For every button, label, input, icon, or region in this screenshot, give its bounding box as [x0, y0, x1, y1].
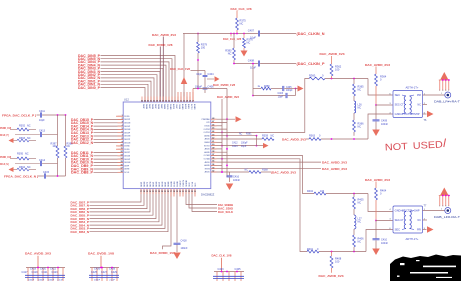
svg-text:C422: C422 [50, 267, 57, 270]
svg-text:R368: R368 [262, 169, 268, 172]
svg-text:SEC-CT: SEC-CT [395, 103, 405, 106]
svg-text:46: 46 [212, 124, 214, 126]
svg-text:OUTA2: OUTA2 [204, 158, 210, 161]
svg-text:26: 26 [167, 191, 169, 193]
svg-text:6: 6 [122, 131, 123, 133]
svg-text:33: 33 [188, 191, 190, 193]
svg-text:10pF: 10pF [241, 146, 247, 148]
svg-text:DB12N: DB12N [124, 142, 131, 144]
svg-text:7: 7 [448, 90, 449, 92]
svg-text:NC: NC [358, 241, 362, 244]
svg-text:NOT: NOT [385, 141, 409, 153]
svg-text:ADTH-1T+: ADTH-1T+ [406, 86, 420, 89]
svg-text:30: 30 [179, 191, 181, 193]
svg-text:NC: NC [418, 103, 422, 106]
svg-text:8: 8 [122, 138, 123, 140]
svg-text:100nF: 100nF [381, 123, 389, 126]
svg-text:U12: U12 [124, 98, 129, 102]
svg-text:C419: C419 [32, 271, 39, 274]
svg-text:NC: NC [228, 52, 232, 56]
svg-text:DAC_DB3_N: DAC_DB3_N [71, 230, 90, 234]
svg-text:OUTB2: OUTB2 [203, 129, 209, 131]
svg-text:C427: C427 [101, 271, 108, 274]
svg-text:13: 13 [121, 155, 123, 157]
svg-text:SYNCN: SYNCN [183, 180, 185, 187]
svg-text:4: 4 [122, 125, 123, 127]
svg-text:54: 54 [171, 100, 173, 102]
svg-text:31: 31 [182, 191, 184, 193]
svg-text:GND-CT/CTRL-SHP: GND-CT/CTRL-SHP [395, 113, 420, 116]
svg-text:DAC_AVDD_3V3: DAC_AVDD_3V3 [217, 95, 239, 99]
svg-text:OUTB1: OUTB1 [203, 132, 209, 134]
svg-text:DB6N: DB6N [156, 181, 158, 187]
svg-text:C418: C418 [181, 239, 188, 242]
svg-text:AGND: AGND [193, 104, 196, 110]
svg-text:DAC_SCLK: DAC_SCLK [218, 210, 234, 214]
svg-text:C408: C408 [248, 58, 255, 62]
svg-text:100: 100 [52, 145, 57, 148]
svg-text:NC: NC [358, 89, 362, 92]
svg-text:DAC_DB12_N: DAC_DB12_N [71, 141, 94, 145]
svg-text:C407: C407 [248, 28, 255, 32]
svg-text:DB8N: DB8N [144, 181, 146, 187]
svg-text:C403: C403 [278, 93, 284, 95]
svg-text:42: 42 [212, 138, 214, 140]
svg-text:15: 15 [121, 161, 123, 163]
svg-text:27: 27 [170, 191, 172, 193]
svg-text:DCLK_P ]: DCLK_P ] [0, 133, 9, 137]
svg-text:19: 19 [146, 191, 148, 193]
svg-text:100nF: 100nF [381, 242, 389, 245]
svg-text:35: 35 [212, 161, 214, 163]
svg-text:5: 5 [445, 205, 446, 207]
svg-text:5: 5 [445, 90, 446, 92]
svg-text:48: 48 [212, 118, 214, 120]
svg-text:R361: R361 [246, 133, 252, 135]
svg-text:DAC_AVDD_3V3: DAC_AVDD_3V3 [152, 33, 176, 37]
svg-text:DVDD_1V8: DVDD_1V8 [0, 126, 11, 130]
svg-text:SEC-CT: SEC-CT [395, 219, 405, 222]
svg-text:AVDD: AVDD [205, 171, 211, 174]
svg-text:61: 61 [150, 100, 152, 102]
svg-text:100pF: 100pF [286, 90, 293, 92]
svg-text:100nF: 100nF [181, 247, 189, 250]
svg-text:SDO: SDO [195, 182, 197, 187]
svg-text:41: 41 [212, 141, 214, 143]
svg-text:DB11P: DB11P [124, 152, 131, 154]
svg-text:DB13P: DB13P [124, 132, 131, 134]
svg-text:BIASJ: BIASJ [187, 104, 190, 109]
svg-text:NC: NC [358, 221, 362, 224]
svg-text:52: 52 [177, 100, 179, 102]
svg-text:DB9P: DB9P [124, 165, 130, 167]
svg-text:59: 59 [156, 100, 158, 102]
svg-text:DB7P: DB7P [147, 181, 149, 187]
svg-text:C426: C426 [94, 267, 101, 270]
svg-text:100: 100 [335, 68, 340, 72]
svg-text:DB13N: DB13N [124, 136, 131, 138]
svg-text:SYNCP: SYNCP [180, 180, 182, 187]
svg-text:ADTH-1T+: ADTH-1T+ [406, 238, 420, 241]
svg-text:1: 1 [439, 205, 440, 207]
svg-text:BIASJ: BIASJ [205, 141, 210, 144]
svg-text:C405: C405 [235, 268, 242, 271]
svg-text:C421: C421 [42, 271, 49, 274]
svg-text:3: 3 [122, 122, 123, 124]
svg-text:23: 23 [158, 191, 160, 193]
svg-text:DVDD: DVDD [124, 149, 130, 151]
svg-text:R402: R402 [307, 190, 314, 193]
svg-text:NC: NC [358, 126, 362, 129]
svg-text:DAC_DVDD_1V8: DAC_DVDD_1V8 [88, 252, 114, 256]
svg-text:C429: C429 [111, 271, 118, 274]
svg-text:DVDD: DVDD [124, 116, 130, 118]
svg-text:C405: C405 [286, 87, 292, 89]
svg-text:DB6P: DB6P [153, 181, 155, 187]
svg-text:49: 49 [186, 100, 188, 102]
svg-text:DAC_CLK_1V8: DAC_CLK_1V8 [223, 37, 241, 41]
svg-text:18: 18 [121, 171, 123, 173]
svg-text:C417: C417 [22, 271, 29, 274]
svg-text:32: 32 [212, 171, 214, 173]
svg-text:DB8P: DB8P [141, 181, 143, 187]
svg-text:R358: R358 [264, 86, 270, 88]
svg-text:DVDD_1V8: DVDD_1V8 [0, 155, 11, 159]
svg-text:DA1N: DA1N [157, 104, 160, 110]
svg-text:NC: NC [358, 107, 362, 110]
svg-text:10: 10 [121, 145, 123, 147]
svg-text:62: 62 [147, 100, 149, 102]
svg-text:DB9N: DB9N [124, 169, 130, 171]
svg-text:32: 32 [185, 191, 187, 193]
svg-text:(DAC_CLKIN_N: (DAC_CLKIN_N [297, 32, 326, 36]
svg-text:47: 47 [212, 121, 214, 123]
svg-text:DB5P: DB5P [159, 181, 161, 187]
svg-text:64: 64 [141, 100, 143, 102]
svg-text:11: 11 [121, 148, 123, 150]
svg-text:DGND: DGND [177, 181, 179, 187]
svg-text:22: 22 [155, 191, 157, 193]
svg-text:10pF: 10pF [278, 97, 284, 99]
svg-text:FPGA_DAC_DCLK_P ]: FPGA_DAC_DCLK_P ] [2, 114, 36, 118]
svg-text:44: 44 [212, 131, 214, 133]
svg-text:C420: C420 [40, 267, 47, 270]
svg-text:38: 38 [212, 151, 214, 153]
svg-text:C418: C418 [30, 267, 37, 270]
svg-text:C414: C414 [39, 159, 46, 162]
svg-text:R395: R395 [17, 152, 24, 155]
svg-text:48: 48 [189, 100, 191, 102]
svg-text:39: 39 [212, 148, 214, 150]
svg-text:DA3P: DA3P [142, 104, 145, 110]
svg-text:45: 45 [212, 128, 214, 130]
svg-text:100: 100 [201, 46, 206, 50]
svg-text:DB15P: DB15P [124, 119, 131, 121]
svg-text:DAC_DVDD_1V8: DAC_DVDD_1V8 [150, 251, 175, 255]
svg-text:51: 51 [180, 100, 182, 102]
svg-text:12: 12 [121, 151, 123, 153]
svg-text:DB14N: DB14N [124, 129, 131, 131]
svg-text:SEC: SEC [395, 228, 401, 231]
svg-text:DB4N: DB4N [168, 181, 170, 187]
svg-text:DAC_AVDD_3V3: DAC_AVDD_3V3 [322, 160, 347, 164]
svg-text:DAC5682Z: DAC5682Z [201, 193, 215, 197]
svg-text:DAC_AVDD_3V3: DAC_AVDD_3V3 [319, 274, 344, 278]
svg-text:10pF: 10pF [39, 119, 45, 122]
svg-text:DAC_DB8_P: DAC_DB8_P [71, 171, 94, 175]
svg-text:15pF: 15pF [196, 73, 202, 76]
svg-text:DAC_CLK_1V8: DAC_CLK_1V8 [170, 67, 190, 71]
svg-text:DA2N: DA2N [151, 104, 154, 110]
svg-text:5: 5 [122, 128, 123, 130]
svg-text:SDIO: SDIO [189, 182, 191, 187]
svg-text:100: 100 [320, 190, 325, 193]
svg-text:DAC_CLK_1V8: DAC_CLK_1V8 [231, 7, 252, 11]
svg-text:33: 33 [212, 167, 214, 169]
svg-text:DVDD: DVDD [204, 126, 210, 128]
svg-text:R359: R359 [262, 135, 269, 138]
svg-text:(DAC_AVDD_3V3: (DAC_AVDD_3V3 [271, 170, 296, 174]
svg-text:PRI: PRI [417, 94, 421, 97]
svg-text:34: 34 [212, 164, 214, 166]
svg-text:DCLK: DCLK [124, 172, 130, 174]
svg-text:DA2P: DA2P [148, 104, 151, 110]
svg-text:1: 1 [441, 208, 442, 210]
svg-text:9: 9 [122, 141, 123, 143]
svg-text:DAC_CLK_1V8: DAC_CLK_1V8 [212, 254, 232, 258]
svg-text:NC: NC [27, 166, 31, 169]
svg-text:R394: R394 [19, 166, 26, 169]
svg-text:1: 1 [439, 90, 440, 92]
svg-text:C413: C413 [232, 146, 238, 148]
svg-text:SEC: SEC [395, 94, 401, 97]
svg-text:100: 100 [335, 260, 340, 264]
svg-text:C412: C412 [232, 143, 238, 145]
svg-text:R360: R360 [309, 73, 316, 77]
svg-text:DB14P: DB14P [124, 126, 131, 128]
svg-text:DB10N: DB10N [124, 162, 131, 164]
svg-text:USED: USED [413, 139, 444, 152]
svg-text:DGND: DGND [171, 181, 173, 187]
svg-text:AGND: AGND [204, 164, 210, 167]
svg-text:DA1P: DA1P [154, 104, 157, 110]
svg-text:DAC_AVDD_3V3: DAC_AVDD_3V3 [365, 178, 390, 182]
svg-text:DB10P: DB10P [124, 159, 131, 161]
svg-text:DA0N: DA0N [163, 104, 166, 110]
svg-text:AVDD: AVDD [205, 148, 211, 151]
svg-text:50: 50 [183, 100, 185, 102]
svg-text:R392: R392 [19, 125, 26, 128]
svg-text:25: 25 [164, 191, 166, 193]
svg-text:40: 40 [212, 144, 214, 146]
svg-text:PWRPAD: PWRPAD [202, 118, 211, 121]
svg-text:DB7N: DB7N [150, 181, 152, 187]
svg-text:21: 21 [152, 191, 154, 193]
svg-text:DGND: DGND [169, 104, 171, 110]
svg-text:3: 3 [442, 90, 443, 92]
svg-text:37: 37 [212, 154, 214, 156]
svg-text:36: 36 [212, 157, 214, 159]
svg-text:NC: NC [240, 22, 244, 26]
svg-text:DAB_LF#-RA-T: DAB_LF#-RA-T [434, 215, 461, 219]
svg-text:35: 35 [194, 191, 196, 193]
svg-text:3: 3 [442, 205, 443, 207]
svg-text:AVDD: AVDD [172, 104, 175, 110]
svg-text:2: 2 [122, 118, 123, 120]
svg-text:GND-CT/CTRL-SHP: GND-CT/CTRL-SHP [395, 209, 420, 212]
svg-text:C413: C413 [39, 130, 46, 133]
svg-text:C425: C425 [91, 271, 98, 274]
svg-text:AVDD: AVDD [184, 104, 187, 110]
svg-text:C415: C415 [43, 171, 50, 174]
svg-text:C423: C423 [52, 271, 59, 274]
svg-text:100pF: 100pF [241, 143, 248, 145]
svg-text:14: 14 [121, 158, 123, 160]
svg-text:DVDD: DVDD [174, 181, 176, 187]
svg-text:C404: C404 [208, 73, 215, 76]
svg-text:C411: C411 [39, 110, 45, 113]
svg-text:24: 24 [161, 191, 163, 193]
svg-text:55: 55 [168, 100, 170, 102]
svg-text:1: 1 [441, 93, 442, 95]
svg-text:56: 56 [165, 100, 167, 102]
svg-text:DA0P: DA0P [160, 104, 163, 110]
svg-text:DB5N: DB5N [162, 181, 164, 187]
svg-text:AVDD: AVDD [205, 138, 211, 141]
svg-text:53: 53 [174, 100, 176, 102]
svg-text:DAC_DIN0_P: DAC_DIN0_P [78, 86, 101, 90]
svg-text:DAC_AVDD_3V3: DAC_AVDD_3V3 [365, 63, 390, 67]
svg-text:NC: NC [67, 145, 71, 148]
svg-text:DAC_AVDD_3V3: DAC_AVDD_3V3 [322, 167, 347, 171]
svg-text:DAC_AVDD_3V3: DAC_AVDD_3V3 [320, 52, 345, 56]
svg-text:100nF: 100nF [233, 179, 241, 182]
svg-text:AGND: AGND [204, 134, 210, 137]
svg-text:CLKN: CLKN [178, 104, 180, 110]
svg-text:29: 29 [176, 191, 178, 193]
svg-text:18: 18 [143, 191, 145, 193]
svg-text:43: 43 [212, 134, 214, 136]
svg-text:1: 1 [122, 115, 123, 117]
svg-text:DGND: DGND [124, 146, 130, 148]
svg-text:NC: NC [271, 135, 275, 138]
svg-text:NC: NC [239, 133, 243, 135]
svg-text:47: 47 [192, 100, 194, 102]
svg-text:NC: NC [27, 137, 31, 140]
svg-text:PRI: PRI [417, 228, 421, 231]
svg-text:DAB_LF#+RA-T: DAB_LF#+RA-T [434, 99, 461, 103]
svg-text:EXTIO: EXTIO [190, 104, 192, 110]
svg-text:DB15N: DB15N [124, 123, 131, 125]
svg-text:DB11N: DB11N [124, 156, 131, 158]
svg-text:34: 34 [191, 191, 193, 193]
svg-text:DA3N: DA3N [145, 104, 148, 110]
svg-text:63: 63 [144, 100, 146, 102]
svg-text:NC: NC [418, 219, 422, 222]
svg-text:DB12P: DB12P [124, 139, 131, 141]
svg-text:AGND: AGND [204, 151, 210, 154]
svg-text:EXTIO: EXTIO [204, 145, 210, 147]
svg-text:FPGA_DAC_DCLK_N ]: FPGA_DAC_DCLK_N ] [4, 175, 38, 179]
svg-text:DAC_AVDD_3V3: DAC_AVDD_3V3 [282, 137, 306, 141]
svg-text:NC: NC [247, 41, 251, 45]
svg-text:60: 60 [153, 100, 155, 102]
svg-text:RSTB: RSTB [205, 168, 211, 170]
svg-text:AGND: AGND [181, 104, 184, 110]
svg-text:17: 17 [140, 191, 142, 193]
svg-text:AVDD: AVDD [205, 161, 211, 164]
svg-text:DVDD: DVDD [166, 104, 168, 110]
svg-text:(DAC_CLKIN_P: (DAC_CLKIN_P [297, 62, 326, 66]
svg-text:C403: C403 [218, 268, 225, 271]
svg-text:17: 17 [121, 168, 123, 170]
svg-text:57: 57 [162, 100, 164, 102]
svg-text:SCLK: SCLK [192, 181, 194, 187]
svg-text:OUTA1: OUTA1 [204, 154, 210, 157]
svg-text:DAC_DVDD_1V8: DAC_DVDD_1V8 [149, 43, 173, 47]
svg-text:28: 28 [173, 191, 175, 193]
svg-text:DCLK_N ]: DCLK_N ] [0, 162, 9, 166]
svg-text:16: 16 [121, 164, 123, 166]
svg-text:NC: NC [245, 169, 249, 172]
svg-text:CLKP: CLKP [175, 104, 177, 110]
svg-text:7: 7 [448, 205, 449, 207]
svg-text:R363: R363 [309, 135, 316, 138]
svg-text:7: 7 [122, 135, 123, 137]
svg-text:NC: NC [27, 125, 31, 128]
svg-text:R401: R401 [307, 248, 314, 251]
svg-text:NC: NC [358, 202, 362, 205]
svg-text:NC: NC [25, 152, 29, 155]
svg-text:20: 20 [149, 191, 151, 193]
svg-text:58: 58 [159, 100, 161, 102]
svg-text:SDENB: SDENB [186, 180, 188, 187]
svg-text:DAC_DVDD_1V8: DAC_DVDD_1V8 [213, 83, 235, 87]
svg-text:DB4P: DB4P [165, 181, 167, 187]
svg-text:DAC_AVDD_3V3: DAC_AVDD_3V3 [25, 252, 51, 256]
svg-text:R393: R393 [19, 137, 26, 140]
